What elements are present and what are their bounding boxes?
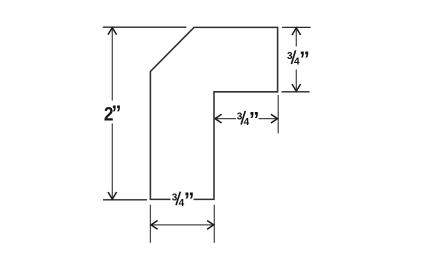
- svg-text:”: ”: [111, 103, 121, 125]
- dimension 3/4in bottom : right arrowhead: [207, 221, 214, 230]
- dimension 3/4in bottom : left extension line: [149, 205, 151, 243]
- dimension 3/4in bottom : dimension line: [151, 224, 214, 226]
- dimension 3/4in middle : dimension line (left segment): [215, 118, 236, 120]
- dimension 2in : up arrowhead: [108, 28, 117, 35]
- dimension 3/4in middle : right arrowhead: [271, 114, 278, 123]
- dimension 3/4in middle : left arrowhead: [215, 114, 222, 123]
- dimension 3/4in right : label 3/4": [287, 48, 310, 71]
- dimension 3/4in right : up arrowhead: [292, 28, 301, 35]
- dimension 3/4in right : vertical dimension line (lower segment): [295, 70, 297, 92]
- dimension 3/4in middle : dimension line (right segment): [259, 118, 278, 120]
- dimension 3/4in right : down arrowhead: [292, 84, 301, 91]
- dimension 3/4in bottom : white gap for label on profile bottom edge: [171, 192, 194, 207]
- dimension 3/4in middle : label 3/4": [237, 108, 260, 131]
- dimension 3/4in bottom : right extension line: [213, 205, 215, 243]
- dimension 3/4in bottom : label 3/4": [172, 189, 195, 212]
- dimension 2in : vertical dimension line (lower segment): [111, 124, 113, 200]
- dimension 2in : bottom extension line: [103, 199, 147, 201]
- profile outline (L-shape with chamfered top-left corner): [150, 27, 277, 199]
- dimension 2in : vertical dimension line (upper segment): [111, 28, 113, 101]
- dimension 2in : top extension line: [103, 26, 187, 28]
- dimension 3/4in middle : right extension line: [277, 95, 279, 133]
- dimension 3/4in right : bottom extension line: [282, 91, 310, 93]
- dimension 3/4in right : top extension line: [282, 26, 311, 28]
- dimension 2in : down arrowhead: [108, 192, 117, 199]
- dimension 3/4in bottom : left arrowhead: [151, 221, 158, 230]
- dimension 3/4in right : vertical dimension line (upper segment): [295, 28, 297, 47]
